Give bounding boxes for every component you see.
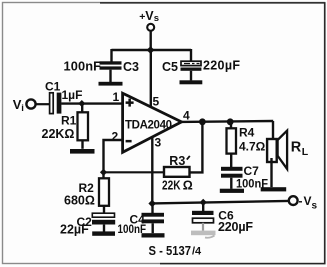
wire junction down to R4 (230, 122, 232, 129)
wire pin 3 down to negative rail (151, 137, 153, 204)
node pin3 rail junction (148, 200, 156, 208)
wire negative rail (152, 201, 289, 204)
ground for C2 (92, 231, 115, 235)
svg-text:22KΩ: 22KΩ (42, 127, 75, 141)
resistor R2 (99, 178, 109, 206)
svg-text:C7: C7 (244, 164, 260, 178)
capacitor C4 (142, 213, 165, 233)
svg-text:L: L (302, 146, 309, 158)
svg-text:1: 1 (113, 90, 120, 104)
svg-text:S - 5137: S - 5137 (149, 244, 192, 258)
wire junction down to C6 (202, 202, 204, 211)
svg-text:5: 5 (153, 95, 160, 109)
wire top supply rail (112, 49, 192, 51)
ground for C7 (220, 189, 244, 193)
wire junction down to C4 (151, 204, 153, 214)
svg-text:R3: R3 (169, 154, 185, 168)
capacitor C6 electrolytic (192, 211, 214, 231)
svg-text:R4: R4 (239, 126, 255, 140)
svg-text:s: s (312, 201, 318, 212)
speaker RL (267, 131, 287, 169)
wire node down to R2 (102, 172, 104, 178)
wire node to R3' (104, 171, 165, 173)
svg-text:680Ω: 680Ω (64, 194, 95, 208)
svg-text:C5: C5 (162, 60, 178, 74)
ground for C5 (180, 80, 203, 84)
svg-text:/4: /4 (192, 246, 202, 258)
wire junction down to R1 (81, 104, 83, 113)
node Vi input terminal (13, 97, 36, 114)
border frame dark right/bottom (100, 3, 325, 264)
ground for C3 (99, 82, 123, 86)
wire R3' right up to output (190, 122, 202, 172)
ground for C6 faded (191, 231, 216, 236)
ground for C4 (142, 233, 165, 237)
svg-text:TDA2040: TDA2040 (125, 120, 172, 132)
svg-text:4.7Ω: 4.7Ω (239, 140, 266, 154)
node C6 rail junction (200, 199, 207, 206)
op-amp U1 TDA2040 (123, 93, 182, 152)
node +Vs terminal (139, 9, 159, 31)
resistor R4 (227, 128, 237, 153)
wire rail down to C3 (110, 49, 112, 62)
svg-text:s: s (154, 13, 159, 24)
wire rail down to C5 (190, 49, 192, 61)
wire output down to speaker (272, 121, 274, 140)
svg-text:22K: 22K (162, 178, 181, 192)
wire R1 to ground (81, 140, 83, 149)
resistor R1 (78, 112, 89, 140)
wire pin 2 left and down (104, 140, 123, 172)
wire C1 to pin 1 (61, 102, 123, 104)
node output feedback junction (199, 118, 206, 125)
ground for R1 (70, 149, 95, 154)
svg-text:22µF: 22µF (60, 223, 89, 237)
wire R2 to C2 (103, 206, 105, 214)
faded pen mark (205, 236, 215, 238)
capacitor C5 electrolytic (181, 61, 202, 80)
svg-text:4: 4 (183, 109, 190, 123)
wire +Vs to top rail (149, 31, 151, 50)
node junction on top rail (147, 46, 155, 54)
capacitor C7 (221, 167, 243, 189)
capacitor C1 (50, 93, 62, 114)
svg-text:2: 2 (112, 130, 119, 144)
svg-text:C1: C1 (45, 80, 61, 94)
plus sign input (126, 99, 134, 107)
wire output line from pin 4 (182, 120, 274, 123)
svg-text:C3: C3 (123, 60, 139, 74)
wire speaker to ground (270, 158, 272, 187)
svg-text:R1: R1 (61, 114, 77, 128)
svg-text:220µF: 220µF (218, 220, 253, 234)
wire R4 down to C7 (230, 153, 232, 167)
node feedback junction (100, 169, 107, 176)
capacitor C2 electrolytic (92, 213, 115, 231)
svg-text:3: 3 (155, 136, 162, 150)
svg-text:100nF: 100nF (64, 58, 102, 73)
node input junction (78, 100, 85, 107)
svg-text:i: i (21, 103, 24, 114)
svg-text:-V: -V (299, 194, 312, 208)
svg-text:1µF: 1µF (62, 88, 83, 102)
svg-text:Ω: Ω (183, 178, 193, 192)
node output R4 junction (227, 118, 234, 125)
wire Vi to C1 (36, 103, 50, 105)
svg-text:220µF: 220µF (203, 59, 240, 73)
svg-text:R: R (291, 139, 302, 155)
resistor R3' feedback (164, 167, 190, 177)
minus sign input (126, 140, 132, 143)
wire pin 5 to rail (150, 50, 152, 107)
node -Vs terminal (289, 194, 318, 212)
capacitor C3 (100, 61, 122, 82)
ground for speaker (261, 187, 287, 191)
